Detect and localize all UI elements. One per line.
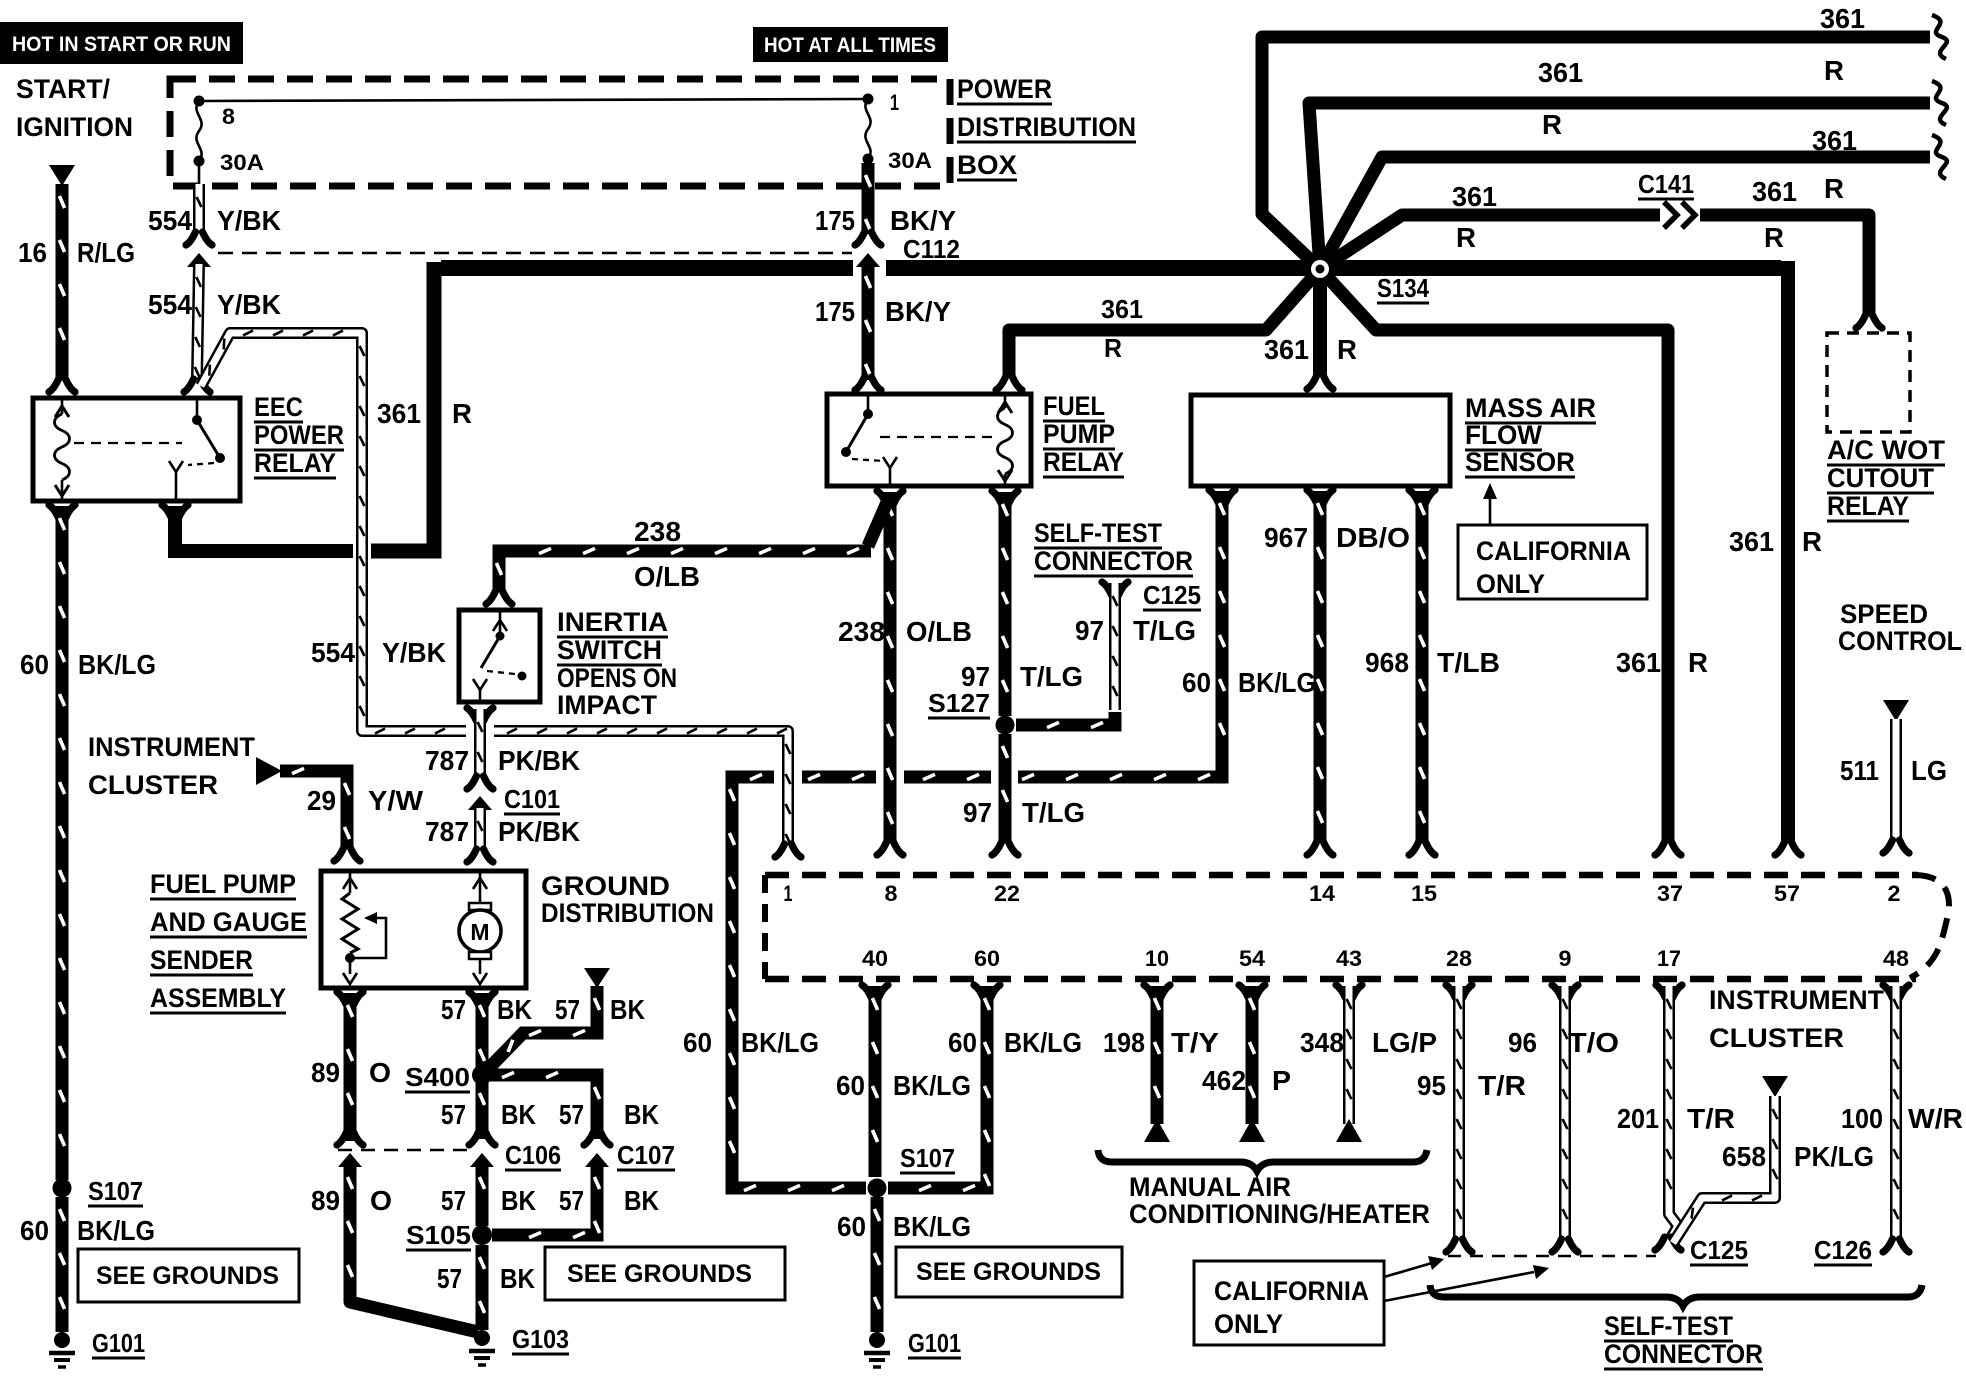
brace self-test connector xyxy=(1430,1285,1922,1306)
wire 968 T/LB xyxy=(1409,490,1435,503)
svg-text:89: 89 xyxy=(311,1185,340,1216)
svg-text:C141: C141 xyxy=(1638,169,1694,199)
svg-text:1: 1 xyxy=(890,90,899,115)
svg-text:CALIFORNIA: CALIFORNIA xyxy=(1214,1276,1369,1306)
svg-text:S400: S400 xyxy=(405,1062,470,1092)
svg-text:C106: C106 xyxy=(505,1140,561,1170)
svg-text:SEE GROUNDS: SEE GROUNDS xyxy=(96,1262,279,1290)
svg-text:R: R xyxy=(1824,55,1844,86)
fuse 8 30A xyxy=(194,96,205,107)
svg-text:RELAY: RELAY xyxy=(1043,447,1124,477)
svg-text:554: 554 xyxy=(148,205,192,236)
fuel pump relay coil xyxy=(1004,394,1007,408)
svg-text:28: 28 xyxy=(1446,946,1472,971)
svg-text:POWER: POWER xyxy=(957,74,1052,104)
svg-text:Y/BK: Y/BK xyxy=(217,289,281,320)
fuel pump motor M xyxy=(479,871,482,903)
wire 238 O/LB branch to inertia switch xyxy=(868,500,888,546)
svg-text:PUMP: PUMP xyxy=(1043,419,1115,449)
svg-text:M: M xyxy=(470,919,489,945)
box CALIFORNIA ONLY upper xyxy=(1458,525,1647,599)
svg-text:BK/Y: BK/Y xyxy=(890,205,956,236)
svg-text:R: R xyxy=(1764,222,1784,253)
svg-text:30A: 30A xyxy=(888,148,932,173)
svg-text:CUTOUT: CUTOUT xyxy=(1827,463,1934,493)
svg-text:Y/W: Y/W xyxy=(368,785,424,816)
svg-text:ONLY: ONLY xyxy=(1214,1309,1283,1339)
relay FUEL PUMP RELAY box xyxy=(827,394,1031,486)
svg-text:22: 22 xyxy=(994,881,1020,906)
svg-text:14: 14 xyxy=(1309,881,1336,906)
splice S134 xyxy=(1306,255,1334,283)
svg-text:SELF-TEST: SELF-TEST xyxy=(1604,1311,1733,1341)
wire bus between fuses xyxy=(199,99,868,101)
svg-text:201: 201 xyxy=(1617,1103,1659,1134)
box SEE GROUNDS right xyxy=(896,1247,1122,1297)
svg-text:10: 10 xyxy=(1145,946,1169,971)
svg-text:START/: START/ xyxy=(16,74,110,104)
svg-text:FUEL: FUEL xyxy=(1043,391,1105,421)
svg-text:97: 97 xyxy=(961,661,990,692)
svg-text:787: 787 xyxy=(425,816,469,847)
ground G101 left xyxy=(54,1332,70,1348)
svg-text:S105: S105 xyxy=(406,1220,471,1250)
dashed line at C112 xyxy=(218,252,852,255)
label HOT AT ALL TIMES xyxy=(753,27,948,62)
svg-text:SENDER: SENDER xyxy=(150,945,253,975)
svg-text:R: R xyxy=(1688,647,1708,678)
svg-text:S107: S107 xyxy=(88,1176,143,1206)
svg-text:T/R: T/R xyxy=(1478,1070,1526,1101)
svg-text:BK/LG: BK/LG xyxy=(741,1027,819,1058)
wire 787 PK/BK from inertia switch xyxy=(467,708,493,721)
fuel pump relay internal dashed xyxy=(880,436,996,438)
connector C101 xyxy=(467,776,493,789)
svg-text:IGNITION: IGNITION xyxy=(16,112,133,142)
svg-text:57: 57 xyxy=(437,1263,462,1294)
svg-text:C101: C101 xyxy=(504,784,560,814)
wire 57 BK from C107 to S105 xyxy=(492,1165,597,1235)
svg-text:967: 967 xyxy=(1264,522,1308,553)
svg-text:RELAY: RELAY xyxy=(1827,491,1909,521)
svg-text:60: 60 xyxy=(20,1215,49,1246)
svg-text:T/O: T/O xyxy=(1568,1027,1619,1058)
dashed line at C106 xyxy=(338,1149,470,1152)
arrow california to pin 9 wire xyxy=(1384,1272,1534,1301)
wire 60 BK/LG from pin 60 xyxy=(974,985,1000,998)
svg-text:DISTRIBUTION: DISTRIBUTION xyxy=(957,112,1136,142)
wire 57 BK from fuel pump motor xyxy=(469,992,495,1005)
svg-text:BOX: BOX xyxy=(957,150,1017,180)
svg-text:BK/LG: BK/LG xyxy=(1004,1027,1082,1058)
connector pin at fuel pump relay xyxy=(855,377,881,390)
svg-text:IMPACT: IMPACT xyxy=(557,690,657,720)
wire 787 PK/BK lower xyxy=(474,808,486,850)
svg-text:LG/P: LG/P xyxy=(1372,1027,1437,1058)
svg-text:198: 198 xyxy=(1103,1027,1145,1058)
wire 361 R third branch to right edge xyxy=(1320,157,1930,269)
wire 198 T/Y from pin 10 xyxy=(1144,985,1170,998)
wire 97 T/LG from fuel pump relay coil xyxy=(992,491,1018,504)
svg-text:60: 60 xyxy=(20,649,49,680)
svg-text:30A: 30A xyxy=(220,150,264,175)
wire 554 Y/BK lower xyxy=(197,264,199,378)
svg-text:PK/LG: PK/LG xyxy=(1794,1141,1874,1172)
svg-text:HOT AT ALL TIMES: HOT AT ALL TIMES xyxy=(764,34,936,57)
svg-text:Y/BK: Y/BK xyxy=(217,205,281,236)
svg-text:FLOW: FLOW xyxy=(1465,420,1542,450)
svg-text:BK/LG: BK/LG xyxy=(1238,667,1316,698)
wire 100 W/R from pin 48 xyxy=(1883,985,1909,998)
EEC relay internal dashed xyxy=(74,442,182,444)
svg-text:DB/O: DB/O xyxy=(1336,522,1410,553)
sender wiper xyxy=(350,918,386,958)
wire 201 T/R from pin 17 xyxy=(1656,985,1682,998)
wire 361 R branch to top edge xyxy=(1262,37,1930,269)
svg-text:A/C WOT: A/C WOT xyxy=(1827,435,1946,465)
box SEE GROUNDS middle xyxy=(545,1247,785,1300)
connector C112 right half xyxy=(855,232,881,245)
wire 60 BK/LG to G101 xyxy=(56,1197,69,1332)
svg-text:BK: BK xyxy=(500,1263,535,1294)
svg-text:BK/LG: BK/LG xyxy=(893,1211,971,1242)
svg-text:37: 37 xyxy=(1657,881,1683,906)
svg-text:361: 361 xyxy=(377,398,421,429)
svg-text:SEE GROUNDS: SEE GROUNDS xyxy=(916,1258,1101,1286)
wire 361 R second branch to right edge xyxy=(1309,103,1930,269)
svg-text:BK/LG: BK/LG xyxy=(77,1215,155,1246)
svg-text:INSTRUMENT: INSTRUMENT xyxy=(1709,985,1884,1015)
arrow california to pin 28 wire xyxy=(1384,1263,1432,1277)
svg-text:SENSOR: SENSOR xyxy=(1465,447,1575,477)
svg-text:361: 361 xyxy=(1538,57,1583,88)
arrow california to sensor xyxy=(1489,497,1492,525)
EEC relay coil xyxy=(61,398,64,414)
svg-text:PK/BK: PK/BK xyxy=(498,816,580,847)
connector C141 xyxy=(1664,202,1677,228)
wire 16 R/LG from start/ignition xyxy=(49,165,75,186)
svg-text:175: 175 xyxy=(815,205,855,236)
power distribution box (dashed) xyxy=(170,79,950,186)
svg-text:R: R xyxy=(1104,333,1122,363)
splice S400 xyxy=(472,1065,492,1085)
svg-text:INSTRUMENT: INSTRUMENT xyxy=(88,732,255,762)
wire 348 LG/P from pin 43 xyxy=(1336,985,1362,998)
svg-text:BK: BK xyxy=(497,994,532,1025)
svg-text:2: 2 xyxy=(1888,881,1901,906)
svg-text:AND GAUGE: AND GAUGE xyxy=(150,907,307,937)
dashed line at C125/C126 xyxy=(1448,1255,1656,1258)
relay A/C WOT CUTOUT RELAY box dashed xyxy=(1827,333,1910,432)
svg-text:T/LG: T/LG xyxy=(1020,661,1083,692)
svg-text:175: 175 xyxy=(815,296,855,327)
wire 361 R from EEC relay switch xyxy=(162,505,188,518)
ground G103 xyxy=(474,1330,490,1346)
svg-text:54: 54 xyxy=(1239,946,1266,971)
svg-text:CONTROL: CONTROL xyxy=(1838,626,1962,656)
svg-text:89: 89 xyxy=(311,1057,340,1088)
svg-text:60: 60 xyxy=(948,1027,977,1058)
wire 361 R branch through C141 to A/C WOT relay xyxy=(1320,215,1660,269)
svg-text:57: 57 xyxy=(555,994,580,1025)
svg-text:100: 100 xyxy=(1841,1103,1883,1134)
inertia switch internals xyxy=(499,610,502,634)
svg-text:15: 15 xyxy=(1411,881,1437,906)
svg-text:T/R: T/R xyxy=(1687,1103,1735,1134)
brace manual air conditioning xyxy=(1098,1150,1427,1171)
svg-text:57: 57 xyxy=(441,1099,466,1130)
svg-text:O/LB: O/LB xyxy=(634,561,700,592)
svg-text:S134: S134 xyxy=(1377,273,1429,303)
connector C106 xyxy=(469,1132,495,1145)
wire 57 BK to G103 xyxy=(476,1245,489,1330)
svg-text:PK/BK: PK/BK xyxy=(498,745,580,776)
svg-text:554: 554 xyxy=(311,637,355,668)
svg-text:BK: BK xyxy=(610,994,645,1025)
svg-text:Y/BK: Y/BK xyxy=(382,637,446,668)
svg-text:462: 462 xyxy=(1202,1065,1246,1096)
svg-text:C112: C112 xyxy=(903,234,960,264)
svg-text:R: R xyxy=(1337,334,1357,365)
svg-text:57: 57 xyxy=(441,994,466,1025)
wire 175 BK/Y upper xyxy=(862,163,875,234)
svg-text:ONLY: ONLY xyxy=(1476,569,1545,599)
svg-text:43: 43 xyxy=(1336,946,1362,971)
splice S107 right xyxy=(868,1179,887,1198)
sender resistor xyxy=(349,871,352,893)
wire 175 BK/Y lower xyxy=(862,264,875,380)
svg-text:GROUND: GROUND xyxy=(541,871,670,901)
svg-text:G101: G101 xyxy=(92,1328,145,1358)
svg-text:INERTIA: INERTIA xyxy=(557,607,668,637)
wire 57 BK from C106 to S105 xyxy=(476,1165,489,1226)
svg-text:60: 60 xyxy=(974,946,1000,971)
splice S107 left xyxy=(53,1179,72,1198)
svg-text:DISTRIBUTION: DISTRIBUTION xyxy=(541,898,714,928)
svg-text:R: R xyxy=(1824,173,1844,204)
svg-text:R: R xyxy=(1542,109,1562,140)
wire 554 Y/BK upper xyxy=(198,161,201,186)
svg-text:SELF-TEST: SELF-TEST xyxy=(1034,518,1162,548)
EEC relay switch xyxy=(192,415,202,425)
wire 97 T/LG to connector pin 22 xyxy=(999,734,1012,843)
wire 96 T/O from pin 9 xyxy=(1552,985,1578,998)
svg-text:CONNECTOR: CONNECTOR xyxy=(1034,546,1193,576)
wire 60 BK/LG from mass air flow sensor xyxy=(1209,490,1235,503)
wire 60 BK/LG to G101 right xyxy=(871,1197,884,1332)
svg-text:CONDITIONING/HEATER: CONDITIONING/HEATER xyxy=(1129,1199,1430,1229)
wire 60 BK/LG run segments xyxy=(904,771,991,784)
svg-text:BK: BK xyxy=(624,1099,659,1130)
svg-text:O/LB: O/LB xyxy=(906,616,972,647)
svg-text:361: 361 xyxy=(1812,125,1857,156)
svg-text:T/Y: T/Y xyxy=(1171,1027,1219,1058)
connector band right dashed curve xyxy=(1910,875,1949,978)
svg-text:S107: S107 xyxy=(900,1143,955,1173)
wire 89 O to G103 xyxy=(344,1165,357,1298)
wire 95 T/R from pin 28 xyxy=(1446,985,1472,998)
svg-text:60: 60 xyxy=(837,1211,866,1242)
wire 361 R down to connector pin 57 xyxy=(1781,261,1795,843)
svg-text:60: 60 xyxy=(836,1070,865,1101)
wire 554 Y/BK run from EEC relay to connector pin 1 xyxy=(201,333,466,731)
svg-text:511: 511 xyxy=(1840,755,1879,786)
connector on 89 O wire xyxy=(337,1132,363,1145)
svg-text:EEC: EEC xyxy=(254,392,303,422)
connector band top dashed line xyxy=(765,872,1918,879)
wire 967 DB/O xyxy=(1307,490,1333,503)
svg-text:BK: BK xyxy=(501,1099,536,1130)
svg-text:60: 60 xyxy=(683,1027,712,1058)
svg-text:FUEL PUMP: FUEL PUMP xyxy=(150,869,296,899)
svg-text:C125: C125 xyxy=(1690,1235,1748,1265)
svg-text:C126: C126 xyxy=(1814,1235,1872,1265)
svg-text:LG: LG xyxy=(1911,755,1947,786)
svg-text:POWER: POWER xyxy=(254,420,344,450)
svg-text:SWITCH: SWITCH xyxy=(557,635,662,665)
box MASS AIR FLOW SENSOR xyxy=(1191,395,1450,486)
svg-text:57: 57 xyxy=(559,1099,584,1130)
svg-text:29: 29 xyxy=(307,785,336,816)
svg-text:40: 40 xyxy=(862,946,888,971)
wire 60 BK/LG from pin 40 xyxy=(862,985,888,998)
svg-text:95: 95 xyxy=(1417,1070,1446,1101)
svg-text:MASS AIR: MASS AIR xyxy=(1465,393,1596,423)
svg-text:361: 361 xyxy=(1452,181,1497,212)
label HOT IN START OR RUN xyxy=(0,22,243,64)
svg-text:ASSEMBLY: ASSEMBLY xyxy=(150,983,286,1013)
svg-text:361: 361 xyxy=(1729,526,1774,557)
ground G101 right xyxy=(869,1332,885,1348)
wire 238 O/LB from fuel pump relay xyxy=(877,491,903,504)
svg-text:BK: BK xyxy=(501,1185,536,1216)
svg-text:OPENS ON: OPENS ON xyxy=(557,663,677,693)
svg-text:BK: BK xyxy=(624,1185,659,1216)
svg-text:57: 57 xyxy=(559,1185,584,1216)
box CALIFORNIA ONLY lower xyxy=(1194,1261,1384,1345)
svg-text:9: 9 xyxy=(1559,946,1572,971)
svg-text:238: 238 xyxy=(634,516,681,547)
svg-text:BK/Y: BK/Y xyxy=(885,296,951,327)
fuel pump relay switch xyxy=(867,394,870,414)
svg-text:361: 361 xyxy=(1101,294,1143,324)
connector band left dashed edge xyxy=(762,875,768,979)
wire 361 R branch to fuel pump relay coil xyxy=(1009,269,1320,376)
svg-text:P: P xyxy=(1272,1065,1291,1096)
svg-text:HOT IN START OR RUN: HOT IN START OR RUN xyxy=(12,33,231,56)
svg-text:RELAY: RELAY xyxy=(254,448,336,478)
wire 361 R down to mass air flow sensor xyxy=(1313,268,1327,376)
svg-text:CLUSTER: CLUSTER xyxy=(1709,1023,1844,1053)
svg-text:97: 97 xyxy=(1075,615,1104,646)
svg-text:BK/LG: BK/LG xyxy=(78,649,156,680)
wire 97 T/LG to self-test connector C125 xyxy=(1102,582,1128,595)
svg-text:T/LB: T/LB xyxy=(1437,647,1500,678)
wire 361 R main horizontal through S134 xyxy=(441,260,853,276)
svg-text:97: 97 xyxy=(963,797,992,828)
wire 60 BK/LG from EEC relay coil xyxy=(49,505,75,518)
svg-text:1: 1 xyxy=(784,881,793,906)
wire 658 PK/LG xyxy=(1762,1076,1788,1097)
svg-text:R/LG: R/LG xyxy=(77,237,135,268)
svg-text:348: 348 xyxy=(1300,1027,1344,1058)
box SEE GROUNDS left xyxy=(78,1249,299,1302)
wire 29 Y/W from instrument cluster xyxy=(256,757,282,785)
svg-text:8: 8 xyxy=(885,881,898,906)
svg-text:57: 57 xyxy=(441,1185,466,1216)
svg-text:SEE GROUNDS: SEE GROUNDS xyxy=(567,1260,752,1288)
svg-text:554: 554 xyxy=(148,289,192,320)
box FUEL PUMP AND GAUGE SENDER ASSEMBLY xyxy=(321,871,526,988)
svg-text:17: 17 xyxy=(1657,946,1681,971)
svg-text:361: 361 xyxy=(1820,3,1865,34)
svg-text:57: 57 xyxy=(1774,881,1800,906)
svg-text:968: 968 xyxy=(1365,647,1409,678)
svg-text:CONNECTOR: CONNECTOR xyxy=(1604,1339,1763,1369)
wire 511 LG from speed control xyxy=(1883,700,1909,721)
wire 361 R branch down to connector pin 37 xyxy=(1320,269,1668,843)
svg-text:R: R xyxy=(1802,526,1822,557)
svg-text:G101: G101 xyxy=(908,1328,961,1358)
svg-text:361: 361 xyxy=(1616,647,1661,678)
wire 57 BK branch triangle xyxy=(584,968,610,988)
svg-text:C125: C125 xyxy=(1143,580,1201,610)
svg-text:BK/LG: BK/LG xyxy=(893,1070,971,1101)
svg-text:C107: C107 xyxy=(617,1140,675,1170)
svg-text:R: R xyxy=(1456,222,1476,253)
fuse 1 30A xyxy=(863,94,874,105)
svg-text:SPEED: SPEED xyxy=(1840,599,1928,629)
svg-text:S127: S127 xyxy=(928,688,990,718)
svg-text:60: 60 xyxy=(1182,667,1211,698)
svg-text:CLUSTER: CLUSTER xyxy=(88,770,218,800)
switch INERTIA SWITCH box xyxy=(459,610,540,702)
wire 89 O from sender xyxy=(337,992,363,1005)
svg-text:658: 658 xyxy=(1722,1141,1766,1172)
connector C107 xyxy=(584,1132,610,1145)
connector C112 left half xyxy=(186,232,212,245)
splice S105 xyxy=(472,1225,492,1245)
svg-text:T/LG: T/LG xyxy=(1133,615,1196,646)
svg-text:361: 361 xyxy=(1264,334,1309,365)
svg-text:361: 361 xyxy=(1752,176,1797,207)
wire 462 P from pin 54 xyxy=(1239,985,1265,998)
svg-text:O: O xyxy=(370,1185,392,1216)
svg-text:8: 8 xyxy=(222,104,235,129)
svg-text:W/R: W/R xyxy=(1908,1103,1963,1134)
svg-text:T/LG: T/LG xyxy=(1022,797,1085,828)
svg-text:MANUAL AIR: MANUAL AIR xyxy=(1129,1172,1291,1202)
connector pin at EEC relay xyxy=(184,379,210,392)
svg-text:R: R xyxy=(452,398,472,429)
svg-text:CALIFORNIA: CALIFORNIA xyxy=(1476,536,1631,566)
svg-text:G103: G103 xyxy=(512,1324,569,1354)
svg-text:16: 16 xyxy=(18,237,47,268)
splice S127 xyxy=(996,716,1015,735)
svg-text:96: 96 xyxy=(1508,1027,1537,1058)
wire 57 BK branch from S400 to C107 xyxy=(490,1075,597,1139)
svg-text:787: 787 xyxy=(425,745,469,776)
relay EEC POWER RELAY box xyxy=(33,398,240,501)
svg-text:238: 238 xyxy=(838,616,885,647)
svg-text:O: O xyxy=(369,1057,391,1088)
svg-text:48: 48 xyxy=(1883,946,1909,971)
connector band bottom dashed line xyxy=(765,976,1916,983)
